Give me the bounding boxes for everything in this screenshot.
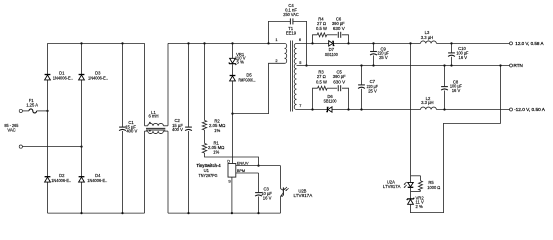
diode D2 1N4006	[45, 177, 51, 182]
wire RTN rail	[297, 65, 510, 67]
wire bridge column A	[47, 43, 49, 213]
junction RTN C7	[360, 64, 362, 66]
junction AC2-bridge	[80, 145, 82, 147]
wire bottom bus B- left	[48, 212, 145, 214]
pin BPM	[236, 172, 259, 174]
resistor R3 27 ohm	[318, 86, 328, 90]
junction AC1-bridge	[46, 110, 48, 112]
resistor R2 2.05 Mohm	[204, 43, 206, 120]
wire top bus B+ right	[168, 42, 285, 44]
svg-text:SB1100: SB1100	[324, 99, 338, 104]
diode D1 1N4006	[45, 75, 51, 80]
capacitor C7 220uF 25V	[361, 66, 363, 85]
wire feedback sense from +12 rail	[410, 43, 412, 175]
wire R4 to C6	[327, 34, 338, 36]
wire AC2 to bridge node	[22, 146, 81, 148]
svg-text:EE19: EE19	[286, 31, 297, 36]
svg-text:-12.0 V, 0.50 A: -12.0 V, 0.50 A	[514, 107, 546, 112]
junction snubber D6 left	[311, 108, 313, 110]
svg-text:VAC: VAC	[7, 128, 15, 133]
ic U1 TNY297PG TinySwitch-4	[228, 164, 236, 178]
junction -12 rail C7	[360, 108, 362, 110]
wire snubber branch R4 C6	[313, 35, 318, 44]
wire -12 rail	[297, 109, 421, 111]
junction bottom bus C2	[187, 212, 189, 214]
junction snubber D6 right	[347, 108, 349, 110]
capacitor C1 15uF 400V	[122, 43, 124, 127]
fuse F1 1.25 A	[29, 109, 37, 113]
junction top bus R2	[203, 42, 205, 44]
svg-text:5 %: 5 %	[237, 60, 244, 65]
pin EN/UV	[236, 165, 281, 167]
svg-text:LTV817A: LTV817A	[294, 193, 313, 198]
junction top bus clamp	[231, 42, 233, 44]
svg-text:390 pF: 390 pF	[333, 74, 346, 79]
junction RTN C4 right	[305, 64, 307, 66]
svg-text:630 V: 630 V	[333, 79, 345, 84]
junction EN/UV	[257, 164, 259, 166]
svg-text:6 mH: 6 mH	[148, 114, 158, 119]
resistor R1 2.05 Mohm	[202, 143, 206, 153]
wire snubber branch R3 C5	[313, 88, 318, 109]
junction +12 rail C10	[450, 42, 452, 44]
diode D3 1N4006	[79, 75, 85, 80]
wire fuse to bridge node	[37, 110, 48, 112]
wire feedback return	[411, 66, 501, 213]
svg-text:16 V: 16 V	[458, 55, 467, 60]
junction RTN C9	[372, 64, 374, 66]
svg-text:0.5 W: 0.5 W	[316, 26, 327, 31]
wire drain jog to transformer pin 2	[233, 63, 285, 113]
capacitor C5 390pF	[337, 85, 339, 91]
junction drain node	[231, 112, 233, 114]
junction +12 rail feedback	[409, 42, 411, 44]
wire +12 rail	[297, 42, 421, 44]
svg-text:400 V: 400 V	[172, 127, 183, 132]
junction top bus C1	[121, 42, 123, 44]
wire terminal to fuse	[22, 110, 29, 112]
wire top bus B+ left	[48, 42, 145, 44]
output terminal +12V	[510, 42, 513, 45]
svg-text:1N4006-E..: 1N4006-E..	[51, 178, 71, 183]
wire bridge column B	[81, 43, 83, 213]
capacitor C6 390pF	[337, 32, 339, 38]
transformer T1 EE19 primary winding	[285, 43, 287, 63]
svg-text:12.0 V, 0.58 A: 12.0 V, 0.58 A	[515, 41, 544, 46]
resistor R5 1000 ohm	[420, 176, 422, 181]
diode D4 1N4006	[79, 177, 85, 182]
svg-text:LTV817A: LTV817A	[383, 184, 401, 189]
svg-text:7: 7	[299, 103, 301, 108]
wire R1 to EN/UV node	[205, 153, 259, 166]
svg-text:3.3 µH: 3.3 µH	[421, 35, 433, 40]
svg-text:250 VAC: 250 VAC	[283, 12, 298, 17]
svg-text:0.5 W: 0.5 W	[316, 79, 327, 84]
junction snubber left	[311, 42, 313, 44]
junction top bus C2	[187, 42, 189, 44]
svg-text:1N4006-E..: 1N4006-E..	[88, 76, 108, 81]
svg-text:400 V: 400 V	[126, 128, 137, 133]
svg-text:6: 6	[299, 37, 301, 42]
capacitor C3 10uF 16V	[258, 173, 260, 192]
capacitor C9 220uF 25V	[373, 43, 375, 51]
wire D5 to drain node	[232, 81, 234, 164]
svg-text:S: S	[228, 178, 231, 183]
choke L1 6 mH	[144, 43, 146, 125]
resistor R4 27 ohm	[317, 33, 327, 37]
junction snubber right	[347, 42, 349, 44]
junction RTN feedback return	[499, 64, 501, 66]
svg-text:2 %: 2 %	[416, 204, 423, 209]
svg-text:TNY297PG: TNY297PG	[199, 173, 218, 178]
junction bottom bus D4	[80, 212, 82, 214]
svg-text:D: D	[227, 158, 230, 163]
junction RTN C8	[443, 64, 445, 66]
capacitor C10 100uF 16V	[451, 43, 453, 52]
svg-text:27 Ω: 27 Ω	[317, 74, 326, 79]
wire R3 to C5	[327, 87, 337, 89]
svg-text:630 V: 630 V	[333, 26, 345, 31]
diode D7 SB1100	[329, 41, 333, 46]
wire source pin to bottom bus	[231, 177, 233, 213]
zener VR2 11V	[410, 191, 412, 199]
svg-text:1000 Ω: 1000 Ω	[427, 185, 440, 190]
svg-text:1.25 A: 1.25 A	[26, 102, 38, 107]
junction bottom bus source	[231, 212, 233, 214]
junction +12 rail C9	[372, 42, 374, 44]
wire R2 to R1	[204, 130, 206, 143]
svg-text:25 V: 25 V	[379, 55, 388, 60]
input terminal AC line 1	[19, 109, 22, 112]
wire U2A R5 bracket top	[411, 175, 421, 177]
svg-text:RTN: RTN	[514, 63, 523, 68]
junction bottom bus C1	[121, 212, 123, 214]
svg-text:5: 5	[299, 60, 301, 65]
svg-text:3.3 µH: 3.3 µH	[421, 100, 433, 105]
transformer T1 secondary winding	[294, 43, 296, 109]
input terminal AC line 2	[19, 145, 22, 148]
junction bottom bus C3	[257, 212, 259, 214]
svg-text:2: 2	[275, 58, 277, 63]
svg-text:1%: 1%	[214, 128, 220, 133]
svg-text:EN/UV: EN/UV	[237, 160, 249, 165]
capacitor C2 15uF 400V	[188, 43, 190, 127]
capacitor C8 100uF 16V	[444, 66, 446, 87]
inductor L3 3.3uH	[421, 41, 437, 43]
output terminal -12V	[510, 108, 513, 111]
svg-text:1N4006-E..: 1N4006-E..	[87, 178, 107, 183]
optocoupler U2A LTV817A LED	[410, 176, 412, 182]
svg-text:RMPG06K...: RMPG06K...	[239, 77, 256, 82]
diode D6 SB1100	[328, 107, 332, 112]
junction top bus C4 left	[267, 42, 269, 44]
optocoupler U2B LTV817A transistor	[280, 166, 282, 189]
svg-text:BPM: BPM	[237, 168, 245, 173]
wire U2A R5 bracket bottom	[411, 190, 421, 192]
svg-text:25 V: 25 V	[368, 88, 377, 93]
diode D5 RMPG06K	[230, 76, 236, 81]
svg-text:16 V: 16 V	[263, 195, 272, 200]
svg-text:SB1100: SB1100	[325, 52, 339, 57]
svg-text:1N4006-E..: 1N4006-E..	[53, 76, 73, 81]
svg-text:16 V: 16 V	[452, 88, 461, 93]
junction RTN C10	[450, 64, 452, 66]
capacitor C4 0.1nF 250VAC	[269, 21, 291, 43]
transformer core	[289, 41, 291, 112]
zener VR1 110V	[230, 58, 236, 63]
wire clamp column top	[232, 43, 234, 58]
svg-text:1: 1	[275, 37, 277, 42]
inductor L2 3.3uH	[421, 107, 437, 109]
junction -12 rail C8	[443, 108, 445, 110]
output terminal RTN	[510, 64, 513, 67]
wire bottom bus B- right	[168, 212, 281, 214]
wire VR1 to D5	[232, 64, 234, 75]
junction top bus D3	[80, 42, 82, 44]
svg-text:1%: 1%	[213, 150, 219, 155]
